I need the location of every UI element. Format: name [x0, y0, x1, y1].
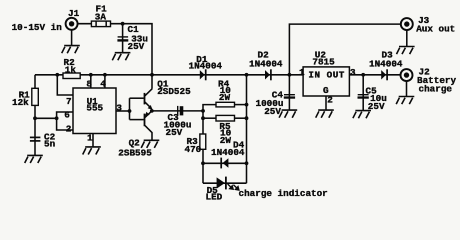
svg-text:1N4004: 1N4004	[369, 58, 403, 69]
svg-text:8: 8	[86, 78, 92, 89]
svg-text:12k: 12k	[12, 97, 29, 108]
svg-text:6: 6	[64, 110, 70, 121]
svg-text:25V: 25V	[166, 127, 183, 138]
svg-text:1: 1	[299, 67, 305, 78]
svg-text:J1: J1	[68, 8, 80, 19]
svg-text:2SD525: 2SD525	[157, 86, 191, 97]
svg-text:1: 1	[87, 132, 93, 143]
svg-text:10-15V in: 10-15V in	[12, 22, 63, 33]
svg-text:charge: charge	[419, 83, 453, 94]
svg-text:Aux out: Aux out	[416, 24, 455, 35]
svg-text:1N4004: 1N4004	[249, 58, 283, 69]
svg-text:7815: 7815	[312, 57, 335, 68]
svg-text:25V: 25V	[264, 106, 281, 117]
svg-text:7: 7	[66, 96, 72, 107]
svg-text:1N4004: 1N4004	[211, 147, 245, 158]
svg-text:IN OUT: IN OUT	[308, 69, 344, 80]
svg-text:3A: 3A	[95, 12, 107, 23]
svg-text:2W: 2W	[220, 135, 232, 146]
svg-text:3: 3	[116, 103, 122, 114]
svg-text:2SB595: 2SB595	[118, 148, 152, 159]
svg-text:1k: 1k	[65, 64, 77, 75]
svg-text:25V: 25V	[128, 41, 145, 52]
svg-text:2W: 2W	[219, 92, 231, 103]
svg-text:25V: 25V	[368, 101, 385, 112]
svg-text:LED: LED	[206, 191, 223, 202]
svg-text:charge indicator: charge indicator	[239, 188, 328, 199]
svg-text:470: 470	[185, 144, 202, 155]
svg-text:5n: 5n	[44, 139, 56, 150]
svg-text:2: 2	[66, 124, 72, 135]
svg-text:4: 4	[100, 78, 106, 89]
svg-text:3: 3	[350, 67, 356, 78]
svg-text:2: 2	[327, 94, 333, 105]
svg-text:1N4004: 1N4004	[189, 61, 223, 72]
svg-text:555: 555	[86, 103, 103, 114]
